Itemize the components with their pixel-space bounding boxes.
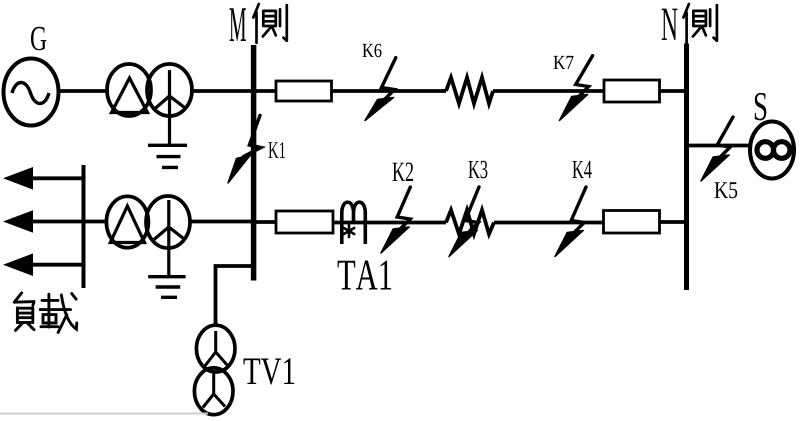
fault marker K4 lightning arrow: [555, 187, 586, 257]
fault marker K7 lightning arrow: [560, 56, 593, 121]
label TV1: [244, 358, 295, 384]
T2 wye symbol and neutral lead to ground: [153, 200, 185, 277]
CJK character 侧 of M-side label: [253, 4, 286, 43]
label N of N-side: [662, 9, 678, 40]
resistor zigzag (line 2 fault impedance): [446, 210, 494, 234]
source S circle: [750, 122, 794, 179]
wire: T2 to M bus (line 2): [190, 220, 252, 224]
CJK label 负载 (load): [14, 293, 34, 331]
T2 delta symbol: [110, 206, 144, 243]
TV1 lower winding circle: [194, 368, 233, 415]
wire: box to N bus (line 2): [660, 220, 686, 224]
wire: M bus to left box (line 2): [254, 220, 276, 224]
label S: [755, 93, 767, 121]
generator G sine wave: [12, 83, 49, 104]
label TA1: [338, 261, 392, 290]
wire: N bus to source S: [689, 144, 751, 148]
label K5: [715, 182, 738, 198]
label K4: [573, 161, 592, 178]
wire: box through TA1 to resistor (line 2): [333, 221, 446, 225]
series element box (line 1 right, N side): [604, 80, 660, 102]
faint scan artifact line bottom left: [0, 413, 208, 415]
label K7: [554, 56, 574, 69]
wire: box to N bus (line 1): [660, 89, 686, 93]
label M of M-side: [230, 8, 246, 41]
TV1 upper wye symbol: [205, 331, 228, 367]
T1 wye symbol and neutral lead to ground: [155, 70, 185, 146]
wire: resistor to right box (line 2): [494, 221, 604, 225]
current transformer TA1 winding (double arch): [342, 202, 366, 244]
label K1: [268, 142, 285, 158]
N bus bar: [684, 44, 689, 291]
load arrow 2 (middle) wire to T2: [28, 220, 108, 224]
CJK character 侧 of N-side label: [683, 4, 717, 43]
load collector bus bar: [82, 165, 86, 288]
load arrow 1 (top): [28, 176, 84, 180]
series element box (line 1 left, M side): [276, 81, 332, 101]
wire: T1 to M bus: [190, 89, 252, 93]
fault marker K2 lightning arrow: [381, 187, 410, 253]
M bus bar: [251, 45, 257, 281]
ground symbol of T2 neutral: [148, 277, 185, 298]
TV1 lower wye symbol: [203, 374, 225, 408]
label K2: [393, 163, 414, 182]
label G: [31, 27, 46, 51]
TV1 upper winding circle: [196, 325, 235, 372]
wire: M bus to voltage transformer TV1: [216, 266, 253, 327]
transformer T1 primary winding (delta) circle: [107, 64, 151, 116]
resistor zigzag (line 1 fault impedance): [446, 78, 493, 104]
label K6: [363, 44, 382, 57]
T1 delta symbol: [112, 78, 148, 113]
load arrow 3 (bottom): [28, 263, 84, 267]
transformer T1 secondary winding (wye) circle: [147, 64, 192, 116]
fault marker K5 lightning arrow: [701, 117, 733, 181]
polarity asterisk of TA1: [344, 225, 354, 237]
series element box (line 2 right, N side): [604, 211, 660, 234]
generator G symbol circle: [4, 59, 59, 126]
wire: box to resistor (line 1): [332, 89, 447, 93]
wire: resistor to right box (line 1): [493, 89, 604, 93]
wire: generator G to transformer T1: [57, 89, 109, 93]
wire: M bus to left box (line 1): [254, 89, 277, 93]
fault marker K3 lightning arrow: [449, 187, 479, 257]
infinity symbol inside S: [757, 142, 774, 159]
transformer T2 primary winding (delta) circle: [106, 196, 148, 247]
series element box (line 2 left, M side): [276, 211, 333, 233]
fault marker K1 lightning arrow: [228, 115, 261, 183]
transformer T2 secondary winding (wye) circle: [146, 196, 190, 248]
fault marker K6 lightning arrow: [365, 58, 396, 121]
ground symbol of T1 neutral: [148, 145, 187, 167]
label K3: [469, 161, 488, 179]
